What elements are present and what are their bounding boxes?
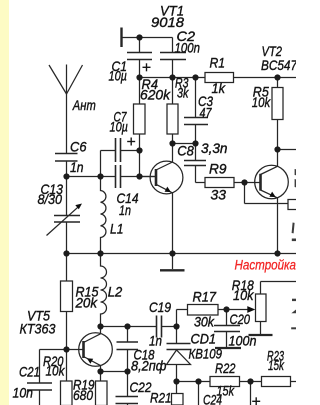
svg-text:10n: 10n — [13, 385, 34, 401]
resistor right edge — [288, 200, 298, 210]
wire C2 bottom — [172, 60, 174, 78]
wire electrolytic — [250, 382, 252, 405]
ground C20 — [215, 347, 241, 349]
svg-text:10k: 10k — [233, 287, 254, 303]
svg-text:620k: 620k — [140, 87, 171, 103]
wire VT5 base — [40, 349, 84, 351]
svg-text:L2: L2 — [108, 284, 123, 300]
wire out right — [278, 149, 297, 151]
resistor R22 — [210, 377, 240, 387]
wire VT1 base — [140, 176, 157, 178]
resistor R4 — [139, 78, 141, 105]
wire top supply — [122, 37, 173, 39]
svg-text:3,3n: 3,3n — [201, 140, 228, 156]
resistor R5 — [277, 78, 279, 88]
resistor R15 — [66, 254, 68, 282]
resistor R1 — [205, 73, 234, 83]
transistor VT5 — [79, 327, 113, 372]
svg-text:1k: 1k — [212, 80, 226, 96]
svg-text:C24: C24 — [203, 392, 222, 405]
svg-text:15k: 15k — [268, 357, 285, 373]
svg-text:CD1: CD1 — [191, 331, 217, 347]
svg-text:R1: R1 — [210, 55, 226, 71]
svg-text:R21: R21 — [150, 390, 172, 405]
svg-text:R22: R22 — [215, 360, 236, 376]
resistor R23 — [262, 377, 291, 387]
svg-text:C6: C6 — [70, 139, 87, 155]
svg-text:R9: R9 — [209, 161, 227, 177]
terminal stub — [120, 28, 122, 48]
svg-text:47: 47 — [200, 105, 213, 121]
svg-text:Ант: Ант — [72, 97, 96, 113]
capacitor C1 — [127, 53, 152, 60]
svg-text:R17: R17 — [193, 289, 218, 305]
wire C1 top — [139, 38, 141, 53]
svg-text:10k: 10k — [252, 94, 271, 110]
transistor VT1 — [150, 144, 183, 254]
svg-text:C22: C22 — [130, 379, 152, 395]
ground — [172, 254, 174, 270]
varactor CD1 — [176, 327, 178, 344]
wire osc rail — [101, 326, 157, 328]
svg-text:10k: 10k — [46, 363, 66, 379]
wire C1 bottom — [139, 60, 141, 78]
resistor R3 — [172, 78, 174, 105]
resistor R17 — [176, 310, 178, 327]
svg-text:8/30: 8/30 — [38, 191, 63, 207]
svg-text:3k: 3k — [177, 85, 189, 101]
plus sign C7 — [127, 138, 135, 146]
svg-text:10µ: 10µ — [109, 68, 128, 84]
svg-text:C20: C20 — [230, 311, 251, 327]
svg-text:1n: 1n — [119, 202, 131, 218]
capacitor C18 — [127, 327, 129, 343]
svg-text:Настройка: Настройка — [235, 257, 297, 273]
wire varactor bottom — [177, 381, 211, 383]
wire main rail — [140, 77, 206, 79]
svg-text:10µ: 10µ — [110, 119, 129, 135]
resistor R19 — [100, 372, 102, 382]
capacitor C21 — [39, 350, 41, 384]
capacitor C20 — [226, 310, 228, 326]
svg-text:C19: C19 — [149, 299, 171, 315]
svg-text:680: 680 — [73, 387, 93, 403]
inductor L1 — [101, 177, 106, 254]
svg-text:100n: 100n — [175, 39, 201, 55]
svg-text:100n: 100n — [229, 333, 257, 349]
wire corner to C2 — [172, 38, 174, 53]
svg-text:C8: C8 — [177, 143, 194, 159]
transistor VT2 — [255, 150, 289, 254]
svg-text:30k: 30k — [194, 314, 215, 330]
page margin strip — [0, 0, 9, 405]
right edge glyph fragments — [291, 169, 296, 329]
svg-text:20k: 20k — [75, 295, 98, 311]
wire tank rail — [67, 176, 116, 178]
capacitor C22 — [127, 372, 129, 397]
antenna — [66, 65, 68, 95]
wire feedback — [244, 183, 246, 204]
capacitor C7 — [100, 151, 102, 177]
plus sign C1 — [143, 63, 151, 71]
wire C24 — [198, 382, 200, 405]
svg-text:1n: 1n — [149, 333, 162, 349]
svg-text:BC547: BC547 — [261, 57, 296, 73]
capacitor C8 — [195, 144, 197, 161]
capacitor C6 — [55, 154, 78, 162]
svg-text:8,2пф: 8,2пф — [131, 358, 167, 374]
ground R18 — [249, 334, 273, 336]
svg-text:L1: L1 — [110, 221, 124, 237]
wire ground rail — [67, 253, 297, 255]
potentiometer R18 — [227, 309, 249, 311]
capacitor C19 — [157, 316, 162, 338]
svg-text:C21: C21 — [19, 364, 40, 380]
wire rail right — [234, 77, 297, 79]
plus sign C24 cap — [252, 397, 260, 405]
capacitor C13 — [66, 177, 68, 216]
svg-text:1n: 1n — [70, 159, 84, 175]
wire collector node — [173, 143, 196, 145]
capacitor C2 — [160, 53, 186, 60]
wire emitter node — [101, 371, 128, 373]
inductor L2 — [101, 254, 107, 327]
svg-text:33: 33 — [211, 187, 227, 203]
capacitor C3 — [195, 78, 197, 118]
resistor R21 — [176, 382, 178, 394]
resistor R20 — [66, 350, 68, 382]
svg-text:КТ363: КТ363 — [20, 321, 56, 337]
capacitor C14 — [116, 165, 121, 188]
resistor R9 — [205, 178, 234, 188]
wire VT2 base — [245, 182, 261, 184]
